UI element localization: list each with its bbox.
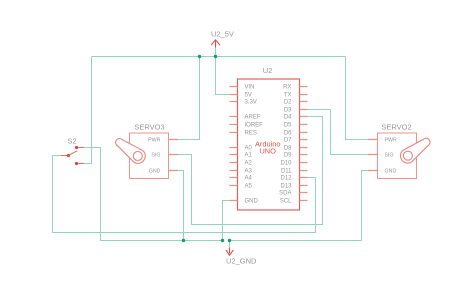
S2 lower throw — [75, 162, 78, 165]
pin PWR SERVO2 — [368, 139, 378, 141]
wire D4 to SERVO3 SIG — [178, 117, 323, 225]
svg-text:U2: U2 — [263, 66, 273, 75]
wire U2 5V pin riser — [216, 48, 230, 95]
pin D2 U2 — [300, 101, 308, 103]
svg-text:U2_GND: U2_GND — [226, 257, 257, 266]
svg-text:IOREF: IOREF — [245, 123, 264, 129]
S2 common pin — [61, 155, 67, 157]
pin D3 U2 — [300, 109, 308, 111]
svg-text:RX: RX — [283, 85, 291, 91]
junction gnd-servo3 — [182, 239, 185, 242]
svg-text:AREF: AREF — [245, 115, 261, 121]
pin GND U2 — [230, 200, 238, 202]
svg-text:TX: TX — [284, 93, 292, 99]
wire GND symbol stem — [229, 241, 231, 248]
pin PWR SERVO3 — [169, 139, 179, 141]
pin A5 U2 — [230, 185, 238, 187]
wire D12 to S2 common — [53, 156, 316, 233]
svg-text:D6: D6 — [284, 131, 292, 137]
svg-text:A5: A5 — [245, 184, 253, 190]
wire SERVO3 GND drop — [178, 171, 184, 241]
pin A2 U2 — [230, 162, 238, 164]
pin SIG SERVO3 — [169, 154, 179, 156]
svg-text:GND: GND — [245, 199, 259, 205]
svg-text:SIG: SIG — [385, 152, 394, 158]
pin TX U2 — [300, 94, 308, 96]
pin A0 U2 — [230, 147, 238, 149]
ground symbol U2_GND — [226, 248, 234, 256]
svg-text:PWR: PWR — [148, 137, 161, 143]
svg-text:SIG: SIG — [151, 152, 160, 158]
servo SERVO3 box — [130, 133, 169, 179]
svg-text:D2: D2 — [284, 100, 292, 106]
junction gnd-u2 — [221, 239, 224, 242]
svg-text:GND: GND — [149, 168, 161, 174]
svg-text:D13: D13 — [280, 184, 292, 190]
power symbol U2_5V — [211, 40, 220, 48]
S2 lever — [69, 151, 78, 156]
pin GND SERVO2 — [368, 170, 378, 172]
S2 upper throw — [75, 146, 78, 149]
svg-text:D11: D11 — [281, 169, 292, 175]
pin D12 U2 — [300, 177, 308, 179]
SERVO3 knob — [116, 139, 146, 164]
svg-text:SDA: SDA — [279, 191, 291, 197]
svg-text:3.3V: 3.3V — [245, 100, 257, 106]
svg-text:RES: RES — [245, 131, 257, 137]
svg-text:D4: D4 — [284, 115, 292, 121]
pin SIG SERVO2 — [368, 154, 378, 156]
svg-text:A4: A4 — [245, 176, 253, 182]
svg-text:U2_5V: U2_5V — [211, 30, 234, 39]
pin 3.3V U2 — [230, 101, 238, 103]
pin D9 U2 — [300, 154, 308, 156]
svg-text:S2: S2 — [67, 136, 76, 145]
svg-text:D5: D5 — [284, 123, 292, 129]
pin D11 U2 — [300, 170, 308, 172]
pin RES U2 — [230, 132, 238, 134]
pin GND SERVO3 — [169, 170, 179, 172]
pin AREF U2 — [230, 116, 238, 118]
IC U2 Arduino UNO box — [238, 79, 300, 210]
pin SDA U2 — [300, 192, 308, 194]
pin D4 U2 — [300, 116, 308, 118]
pin D5 U2 — [300, 124, 308, 126]
wire SERVO3 PWR to 5V rail — [178, 57, 200, 140]
svg-text:D12: D12 — [280, 176, 292, 182]
servo SERVO2 box — [378, 133, 417, 179]
pin D8 U2 — [300, 147, 308, 149]
wire S2 upper throw to GND rail — [84, 148, 223, 241]
svg-text:A2: A2 — [245, 161, 253, 167]
svg-text:SERVO2: SERVO2 — [381, 123, 411, 132]
svg-text:SCL: SCL — [280, 199, 292, 205]
svg-text:A1: A1 — [245, 153, 253, 159]
junction rail-servo3pwr — [198, 55, 201, 58]
svg-text:PWR: PWR — [385, 137, 398, 143]
svg-text:SERVO3: SERVO3 — [134, 123, 164, 132]
svg-text:A0: A0 — [245, 146, 253, 152]
wire U2 GND pin drop — [223, 201, 230, 241]
pin A1 U2 — [230, 154, 238, 156]
pin VIN U2 — [230, 86, 238, 88]
svg-text:A3: A3 — [245, 169, 253, 175]
svg-text:5V: 5V — [245, 93, 252, 99]
svg-text:UNO: UNO — [259, 147, 276, 156]
wire SERVO2 PWR from 5V rail — [346, 57, 369, 140]
pin RX U2 — [300, 86, 308, 88]
svg-text:D9: D9 — [284, 153, 292, 159]
junction gnd-symbol — [228, 239, 231, 242]
pin IOREF U2 — [230, 124, 238, 126]
svg-text:VIN: VIN — [245, 85, 255, 91]
SERVO2 knob — [400, 138, 430, 163]
pin D7 U2 — [300, 139, 308, 141]
svg-text:D8: D8 — [284, 146, 292, 152]
pin A3 U2 — [230, 170, 238, 172]
wire S2 lower throw to 5V rail — [84, 57, 92, 164]
svg-text:GND: GND — [385, 168, 397, 174]
svg-text:D10: D10 — [280, 161, 292, 167]
junction rail-5v — [214, 55, 217, 58]
pin 5V U2 — [230, 94, 238, 96]
wire 5V top rail — [92, 56, 346, 58]
pin SCL U2 — [300, 200, 308, 202]
pin D6 U2 — [300, 132, 308, 134]
wire GND rail right / SERVO2 GND — [230, 171, 369, 241]
pin D10 U2 — [300, 162, 308, 164]
pin D13 U2 — [300, 185, 308, 187]
pin A4 U2 — [230, 177, 238, 179]
svg-text:D7: D7 — [284, 138, 292, 144]
wire D3 to SERVO2 SIG — [308, 110, 369, 155]
svg-text:D3: D3 — [284, 108, 292, 114]
